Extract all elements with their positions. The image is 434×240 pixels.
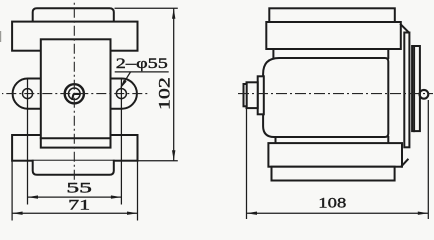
centerlines xyxy=(2,2,433,183)
side top wide rect xyxy=(266,22,401,49)
bottom cap xyxy=(33,161,114,175)
bottom flange xyxy=(12,135,137,161)
svg-text:71: 71 xyxy=(68,198,90,214)
arrow leader phi55 xyxy=(120,80,127,89)
arrow 108 right xyxy=(418,212,429,215)
boss step 3 xyxy=(244,84,247,106)
ext line 102 bottom xyxy=(138,160,178,162)
dim line 55 xyxy=(28,196,122,198)
top mounting bar xyxy=(12,22,137,51)
arrow 71 right xyxy=(127,212,138,215)
dimension texts xyxy=(66,56,346,214)
ext line 102 top xyxy=(115,7,178,9)
side bottom chamfer xyxy=(401,160,407,167)
arrow 108 left xyxy=(247,212,258,215)
side flange plate B xyxy=(412,46,420,131)
arrow 55 left xyxy=(28,195,39,198)
right ear lug xyxy=(111,79,137,109)
boss step 2 xyxy=(247,82,258,108)
scan noise bottom-left corner xyxy=(0,31,2,42)
side neck top xyxy=(272,49,274,58)
arrow 102 bottom xyxy=(172,150,175,161)
ext line flange left xyxy=(11,161,13,221)
dim line 102 xyxy=(173,8,175,161)
left ear hole xyxy=(23,89,33,99)
dim line 108 xyxy=(247,212,429,214)
ext line flange right xyxy=(137,161,139,221)
ext line hole left xyxy=(27,79,29,205)
left ear lug xyxy=(13,79,41,109)
side neck bottom xyxy=(275,137,277,143)
coil body xyxy=(41,39,111,147)
side bottom narrow rect xyxy=(272,167,395,181)
arrow 55 right xyxy=(111,195,122,198)
svg-text:2–φ55: 2–φ55 xyxy=(116,56,168,72)
dim line 71 xyxy=(12,212,137,214)
keyway mark xyxy=(72,94,79,99)
svg-text:55: 55 xyxy=(66,180,92,196)
leader line to ear hole xyxy=(121,72,131,87)
svg-text:108: 108 xyxy=(318,196,346,212)
side top narrow rect xyxy=(269,8,395,22)
label 2-phi55 underline xyxy=(115,71,169,73)
side coil can body xyxy=(263,58,388,137)
svg-text:102: 102 xyxy=(157,77,174,110)
arrow 102 top xyxy=(172,8,175,19)
side bottom wide rect xyxy=(268,143,402,167)
top cap xyxy=(33,8,114,21)
plate B inner line xyxy=(413,46,415,131)
ext line 108 left xyxy=(246,108,248,220)
right ear hole xyxy=(116,89,126,99)
ext line 108 right xyxy=(427,100,429,219)
side flange plate A xyxy=(404,33,409,148)
ext line hole right xyxy=(120,79,122,205)
boss step 1 xyxy=(258,76,264,114)
body bottom plate line xyxy=(41,137,111,139)
front view vertical centerline xyxy=(73,2,75,183)
side small circle xyxy=(420,90,429,99)
arrow 71 left xyxy=(12,212,23,215)
front view horizontal centerline xyxy=(2,93,149,95)
center boss inner circle xyxy=(69,88,81,100)
side top chamfer xyxy=(401,25,409,33)
center boss outer circle xyxy=(65,84,84,103)
side view horizontal centerline xyxy=(238,93,433,95)
